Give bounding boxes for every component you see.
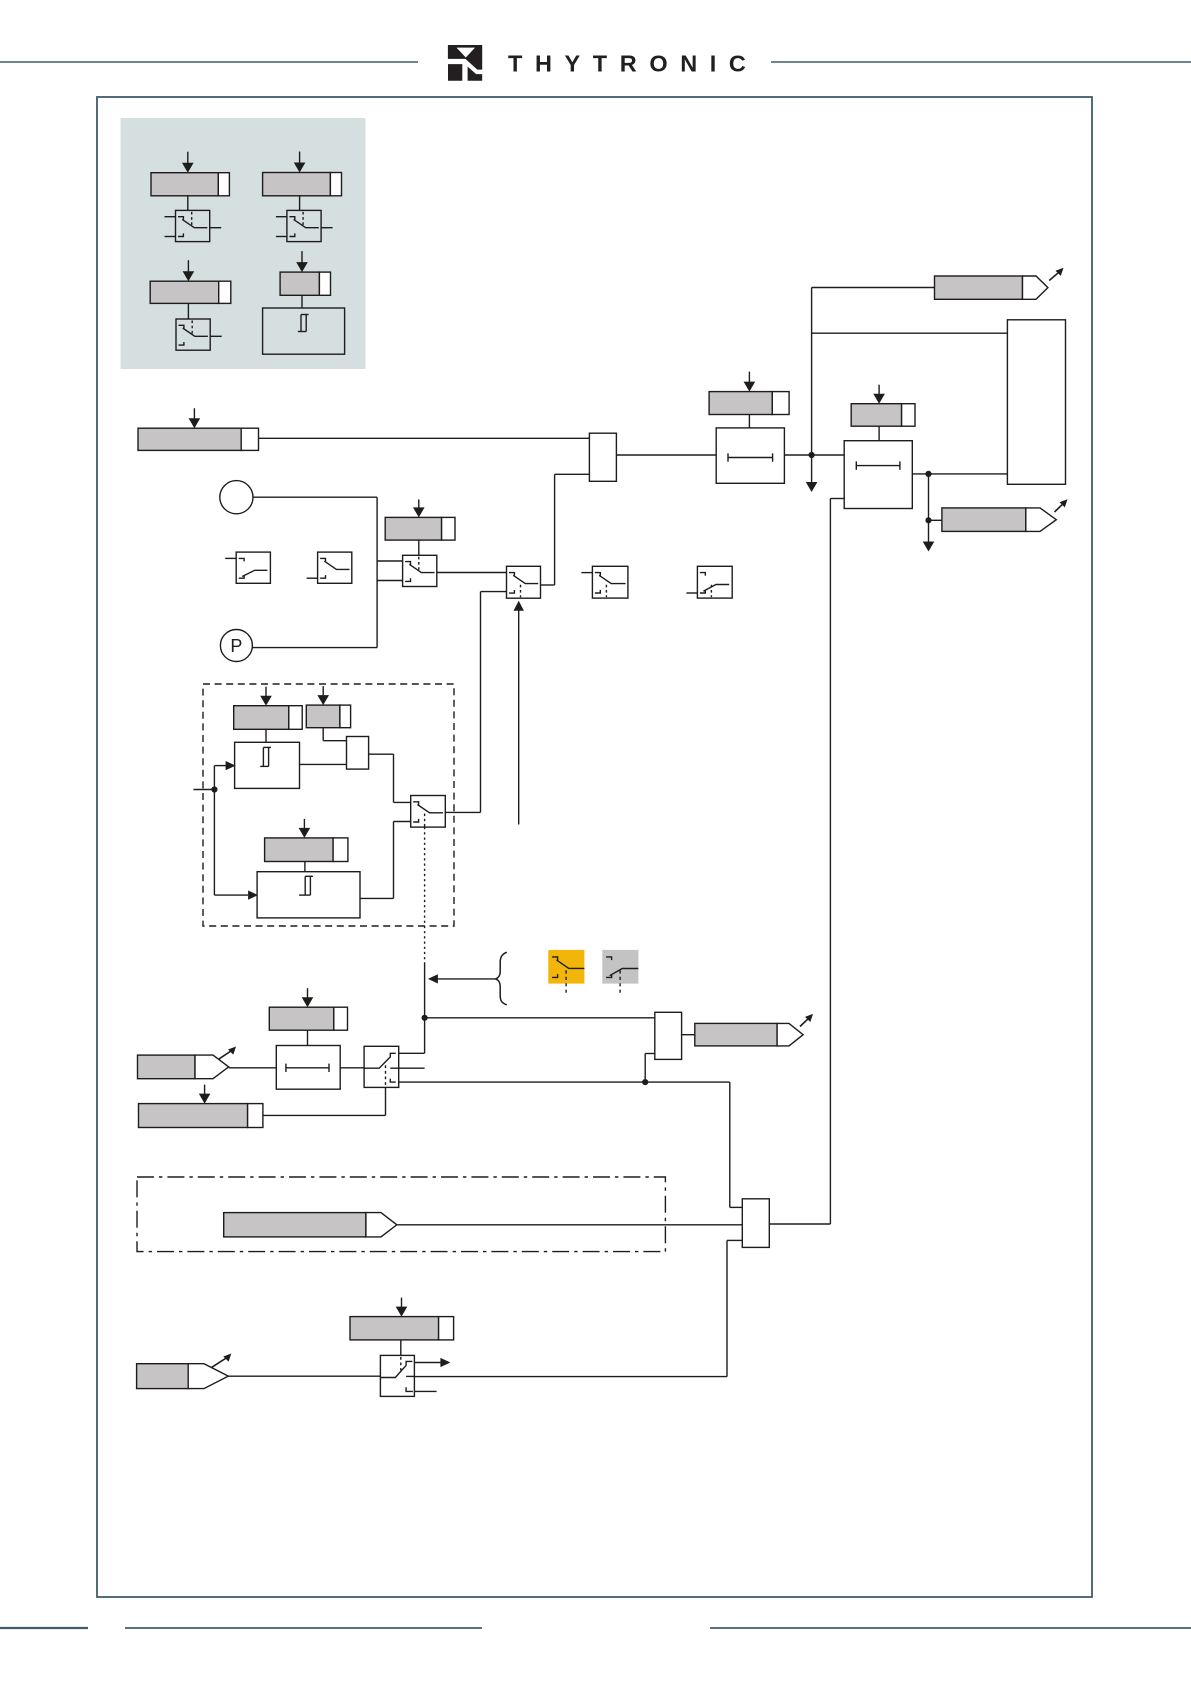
junction J6	[642, 1079, 648, 1085]
down arrow below J3	[923, 521, 935, 552]
arrow into timer A	[214, 761, 235, 770]
pennant inside dash-dot box	[224, 1213, 397, 1237]
junction J2	[925, 471, 931, 477]
comparator box C1	[716, 428, 784, 483]
wire bar to C2	[878, 426, 880, 441]
wire bus to SW3 lower	[377, 580, 403, 582]
vertical input split	[213, 766, 215, 896]
footer rule middle	[125, 1627, 482, 1629]
wire AND1 to pennant	[682, 1034, 695, 1036]
wire AND2 lower-left stub	[727, 1240, 742, 1376]
wire comparator E to SWD	[340, 1067, 364, 1069]
switch SWE (mirrored)	[380, 1355, 414, 1396]
comparator box C2	[844, 441, 912, 509]
setting bar T2 (small)	[306, 686, 350, 728]
OR block OR1	[589, 433, 616, 481]
wire bar F1 to SWE	[400, 1340, 402, 1356]
legend switch symbol 1	[165, 210, 222, 241]
wire AND-a to SWC	[369, 754, 411, 802]
legend panel background	[121, 118, 366, 369]
header rule left	[0, 61, 418, 63]
wire timer A to AND-a	[300, 763, 347, 765]
junction J4	[211, 786, 217, 792]
wire legend bar3 to switch	[187, 303, 189, 319]
wire SWD bottom output	[399, 1081, 730, 1083]
example switch symbol with dashed control	[581, 566, 628, 598]
wire SWD top output up	[399, 1052, 425, 1054]
wire legend bar1 to switch	[187, 196, 189, 211]
annotation brace	[496, 952, 507, 1005]
legend setting bar 2	[263, 152, 342, 196]
wire bar to C1	[748, 415, 750, 428]
input setting bar I1	[138, 408, 259, 450]
timer box B	[257, 872, 360, 918]
wire to OR2 block upper	[812, 332, 1008, 334]
AND block AND2	[742, 1199, 769, 1248]
wire legend bar4 to timer	[301, 295, 303, 308]
setting bar E2	[139, 1085, 263, 1128]
comparator box E	[276, 1046, 340, 1090]
setting bar C1	[709, 372, 789, 415]
output pennant START	[935, 268, 1064, 300]
wire IN1 to comparator E	[229, 1067, 277, 1069]
logo text THYTRONIC	[508, 51, 758, 77]
svg-text:P: P	[230, 636, 242, 656]
output arrow from SWE	[414, 1358, 450, 1367]
example switch symbol lower-input	[686, 566, 732, 598]
wire I1 to OR1	[259, 437, 590, 439]
footer rule left	[0, 1627, 88, 1629]
input pennant IN1	[138, 1047, 237, 1079]
wire bar E1 to comparator	[307, 1030, 309, 1045]
legend switch symbol 3	[176, 319, 222, 350]
setting bar SW3 control	[385, 499, 455, 540]
wire P to selector bus	[252, 647, 377, 649]
wire group input	[193, 789, 214, 791]
logo icon	[448, 45, 482, 81]
legend setting bar 4 (small)	[280, 251, 330, 295]
input circle P	[220, 630, 252, 662]
setting bar E1	[269, 988, 347, 1030]
input pennant IN2	[137, 1354, 232, 1389]
junction J5	[422, 1015, 428, 1021]
wire timer B to SWC	[360, 822, 411, 899]
option symbol (alternative, gray)	[602, 950, 638, 993]
annotation arrow	[428, 974, 496, 983]
setting bar C2	[851, 385, 915, 427]
junction J1	[809, 452, 815, 458]
input circle (blank)	[220, 481, 253, 514]
setting bar T3	[265, 819, 348, 862]
output pennant TRIP	[942, 499, 1068, 531]
wire J5 to AND1	[425, 1017, 655, 1019]
page border	[97, 97, 1092, 1597]
wire bar E2 to SWD control	[263, 1087, 386, 1115]
header rule right	[771, 61, 1191, 63]
switch SWC	[411, 796, 446, 828]
AND block AND1	[655, 1012, 682, 1059]
option symbol (selected, orange)	[548, 950, 584, 995]
wire OR1 to comparator C1	[616, 454, 716, 456]
dash-dot group box	[137, 1177, 665, 1252]
wire bus to SW3 upper	[377, 560, 403, 562]
wire to AND2 upper	[730, 1082, 743, 1207]
switch SW4	[507, 566, 541, 598]
wire circle to selector bus	[253, 496, 377, 498]
wire J3 to output pennant TRIP	[929, 519, 942, 521]
wire C1 to C2	[784, 454, 844, 456]
wire SW4 lower-left stub	[481, 591, 507, 593]
up arrow into SW4	[514, 601, 524, 825]
wire SWE through to AND2	[414, 1376, 727, 1378]
setting bar F1	[350, 1298, 454, 1340]
arrow into timer B	[214, 891, 258, 900]
wire pennant to AND2	[397, 1224, 743, 1226]
svg-text:THYTRONIC: THYTRONIC	[508, 51, 758, 77]
example switch symbol upper position	[307, 552, 352, 583]
vertical to SWD	[424, 963, 426, 1053]
wire AND2 output to C2 stub	[769, 1223, 830, 1225]
OR block OR2 (tall)	[1007, 320, 1065, 485]
dashed ctrl inside SWC	[424, 814, 426, 827]
stub SWE bottom right	[414, 1390, 436, 1392]
vertical J2 to J3	[928, 474, 930, 520]
footer rule right	[710, 1627, 1191, 1629]
legend setting bar 1	[151, 152, 229, 196]
wire J6 up to AND1	[645, 1054, 655, 1083]
wire SW3 to SW4	[437, 572, 507, 574]
timer box A	[235, 742, 300, 788]
wire legend bar2 to switch	[299, 196, 301, 211]
dotted control from SWC	[424, 827, 426, 963]
AND block AND-a	[347, 737, 369, 770]
example switch symbol lower position	[225, 552, 270, 583]
wire bar to SW3	[418, 540, 420, 555]
wire C2 block stub	[830, 499, 844, 1225]
wire C2 to OR2	[912, 473, 1007, 475]
wire SW4 output up to OR1	[541, 474, 590, 585]
down arrow below J1	[806, 455, 818, 492]
legend setting bar 3	[150, 260, 231, 303]
legend switch symbol 2	[276, 210, 333, 241]
wire SWC output	[445, 592, 480, 813]
wire bar T1 to timer A	[265, 729, 267, 742]
wire IN2 to SWE	[228, 1375, 380, 1377]
switch SWD (mirrored)	[364, 1046, 425, 1087]
output pennant AND1	[695, 1014, 813, 1046]
dashed group box	[203, 684, 454, 926]
wire bar T2 to AND-a	[323, 728, 346, 741]
legend timer box	[263, 308, 345, 354]
wire bar T3 to timer B	[304, 862, 306, 872]
switch SW3	[403, 555, 437, 586]
selector bus vertical	[376, 497, 378, 647]
wire to start output pennant	[812, 287, 935, 289]
junction J3	[925, 517, 931, 523]
vertical from J1 up	[811, 288, 813, 456]
setting bar T1	[234, 687, 302, 730]
